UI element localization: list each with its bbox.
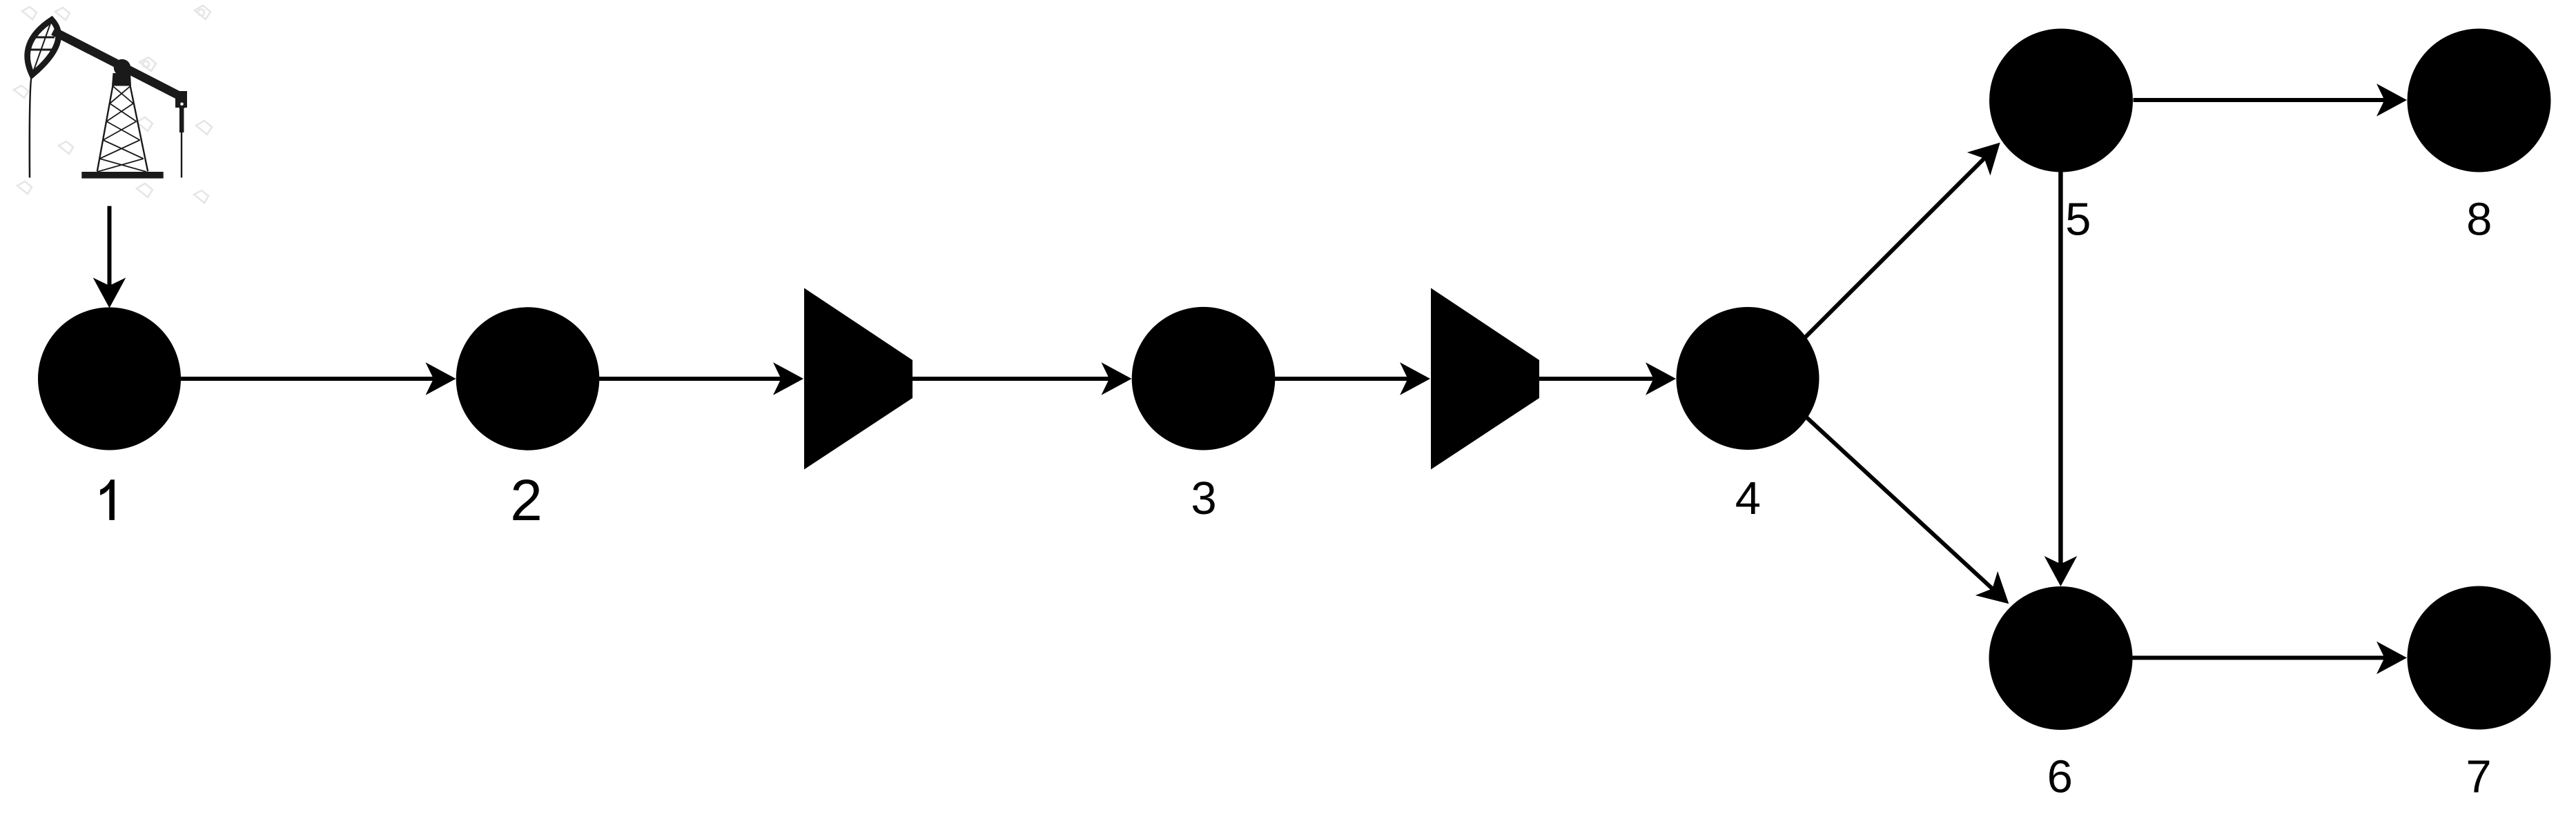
arrowhead into node 5 — [1967, 143, 2000, 176]
svg-text:2: 2 — [510, 468, 543, 533]
tower lattice — [97, 86, 146, 172]
wire 3 to compressor T2 — [1275, 377, 1408, 381]
ground base — [81, 172, 163, 179]
node 3 — [1132, 307, 1276, 450]
arrowhead into node 7 — [2377, 642, 2407, 675]
horse head — [28, 20, 59, 75]
node 5 — [1989, 29, 2133, 172]
node 6 — [1989, 586, 2133, 730]
pulley — [179, 101, 185, 107]
walking beam — [53, 31, 184, 98]
svg-text:8: 8 — [2466, 194, 2492, 246]
wire 1 to 2 — [181, 377, 434, 381]
polished rod — [179, 107, 184, 132]
wire T1 to 3 — [913, 377, 1109, 381]
arrowhead into node 1 — [93, 278, 126, 308]
arrowhead into T1 — [773, 362, 803, 395]
wire 4 to 5 — [1802, 159, 1984, 341]
node 8 — [2408, 29, 2551, 172]
wire 2 to compressor T1 — [599, 377, 781, 381]
center bearing — [114, 59, 130, 76]
node 2 — [456, 307, 600, 450]
wire 4 to 6 — [1803, 414, 1992, 588]
node 7 — [2408, 586, 2551, 730]
bridle cable — [30, 75, 32, 178]
svg-text:7: 7 — [2466, 751, 2491, 803]
arrowhead into node 6 — [1975, 571, 2009, 604]
node 4 — [1677, 307, 1819, 450]
svg-text:3: 3 — [1191, 473, 1216, 524]
arrowhead into node 3 — [1102, 362, 1132, 395]
arrowhead into node 6 top — [2045, 556, 2078, 586]
tower apex block — [112, 73, 131, 86]
wire T2 to 4 — [1539, 377, 1654, 381]
arrowhead into node 2 — [426, 362, 456, 395]
wire pumpjack to node 1 — [108, 206, 112, 286]
svg-text:4: 4 — [1735, 473, 1761, 524]
compressor T1 — [804, 288, 913, 470]
pumpjack icon — [14, 6, 212, 203]
arrowhead into T2 — [1400, 362, 1430, 395]
svg-text:5: 5 — [2065, 194, 2091, 246]
wire 5 to 8 — [2134, 98, 2385, 102]
wire 6 to 7 — [2133, 656, 2385, 660]
watermark marks — [14, 6, 212, 203]
wire 5 to 6 — [2058, 172, 2063, 564]
svg-text:6: 6 — [2047, 751, 2073, 803]
arrowhead into node 4 — [1646, 362, 1676, 395]
label 1 — [100, 479, 115, 520]
beam end cap — [175, 91, 187, 108]
arrowhead into node 8 — [2377, 83, 2407, 117]
tower legs — [97, 86, 148, 172]
compressor T2 — [1431, 288, 1539, 470]
node 1 — [38, 308, 181, 450]
